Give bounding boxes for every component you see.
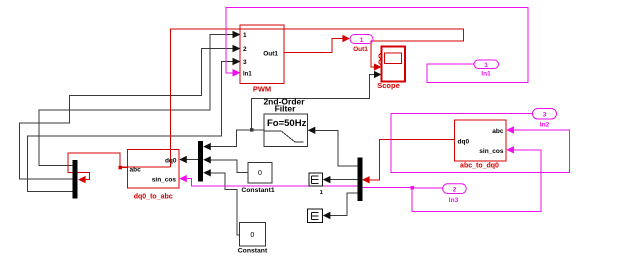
svg-text:3: 3 <box>243 59 247 66</box>
svg-text:abc: abc <box>130 167 142 174</box>
svg-text:Fo=50Hz: Fo=50Hz <box>267 118 307 129</box>
svg-text:In1: In1 <box>481 71 491 78</box>
svg-text:dq0_to_abc: dq0_to_abc <box>134 194 173 201</box>
svg-text:In3: In3 <box>449 197 459 204</box>
svg-text:abc: abc <box>492 128 504 135</box>
svg-text:Filter: Filter <box>275 104 296 114</box>
svg-text:sin_cos: sin_cos <box>479 148 504 155</box>
svg-text:1: 1 <box>484 62 488 69</box>
svg-text:Constant1: Constant1 <box>241 187 274 194</box>
svg-text:abc_to_dq0: abc_to_dq0 <box>460 163 499 170</box>
svg-text:Constant: Constant <box>238 248 268 255</box>
svg-text:2: 2 <box>243 46 247 53</box>
svg-text:In1: In1 <box>243 72 252 78</box>
svg-text:2: 2 <box>453 187 457 194</box>
svg-text:dq0: dq0 <box>458 139 470 146</box>
svg-text:0: 0 <box>258 170 262 177</box>
svg-text:1: 1 <box>360 37 364 44</box>
svg-text:0: 0 <box>250 232 254 239</box>
svg-text:Out1: Out1 <box>353 46 368 53</box>
svg-text:PWM: PWM <box>253 85 271 94</box>
svg-text:Scope: Scope <box>377 81 400 90</box>
svg-text:dq0: dq0 <box>165 158 177 165</box>
svg-text:sin_cos: sin_cos <box>152 177 177 184</box>
svg-text:In2: In2 <box>540 122 550 129</box>
svg-text:3: 3 <box>543 112 547 119</box>
svg-text:Out1: Out1 <box>263 51 278 58</box>
svg-text:1: 1 <box>243 32 247 39</box>
